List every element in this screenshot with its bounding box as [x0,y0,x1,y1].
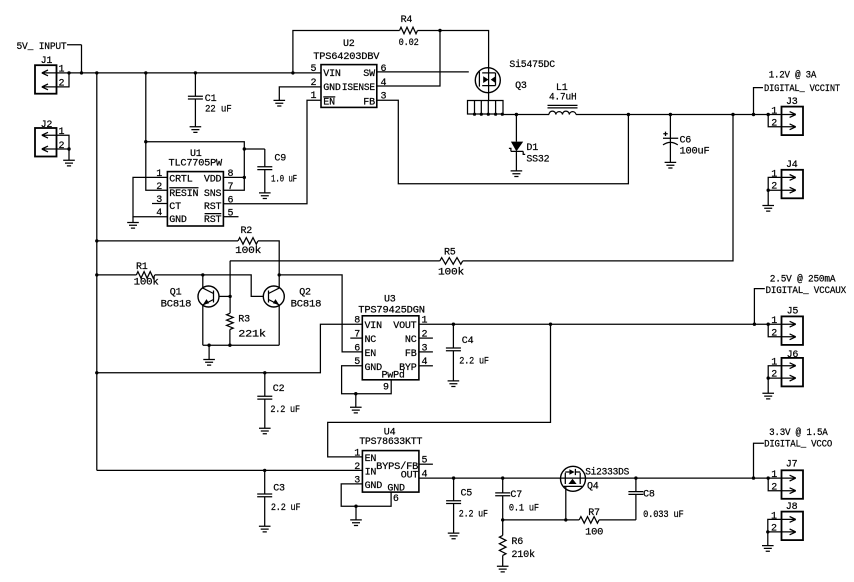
svg-text:4: 4 [381,78,387,89]
junction Q1 base [228,295,231,298]
resistor R7 [579,517,599,524]
svg-text:5: 5 [422,456,428,467]
wire U1 pin6 to U2 EN [223,100,321,204]
junction VCCO label [752,476,755,479]
wire U4 GND route [341,484,391,506]
wire Q2C to U3 EN [279,275,362,352]
svg-text:3.3V @ 1.5A: 3.3V @ 1.5A [769,427,828,439]
junction C3 [263,469,266,472]
svg-text:2: 2 [422,330,428,341]
svg-text:TPS78633KTT: TPS78633KTT [359,437,422,448]
wire R2 line left [97,240,238,242]
pad pin dot 3 [487,113,490,116]
connector J3 [782,107,804,136]
junction VCCINT label [752,113,755,116]
svg-text:C7: C7 [510,490,522,501]
pad pin dot 5 [501,113,504,116]
svg-text:SW: SW [363,69,375,80]
ground C6 [665,162,677,168]
wire VCCINT label stem [754,88,764,115]
junction U4 gnd [354,505,357,508]
wire fb node left [503,519,580,521]
svg-text:210k: 210k [511,549,535,561]
svg-text:1: 1 [59,127,65,138]
svg-text:RST: RST [204,215,222,226]
svg-text:5: 5 [228,208,234,219]
svg-text:1: 1 [422,316,428,327]
junction J4 pin2 [767,189,770,192]
wire U3 BYP stub [419,365,433,367]
svg-text:2: 2 [354,462,360,473]
svg-text:NC: NC [365,335,377,346]
wire J5 pin2 [768,324,781,337]
svg-text:1.2V @ 3A: 1.2V @ 3A [769,70,817,82]
wire U1 gnd stem [132,217,134,223]
wire R2 to Q2 collector [258,241,279,288]
svg-text:1: 1 [771,470,777,481]
resistor R5 [440,258,463,265]
junction C9 branch [243,147,246,150]
svg-text:7: 7 [354,330,360,341]
svg-text:GND: GND [365,481,383,492]
junction VDD pin [243,176,246,179]
svg-text:VDD: VDD [204,175,222,186]
junction rail gnd [207,344,210,347]
wire J3 pin2 [768,115,781,127]
svg-text:2.2 uF: 2.2 uF [459,357,489,368]
junction C7 R6 [501,518,504,521]
svg-text:6: 6 [228,195,234,206]
svg-text:U3: U3 [384,295,396,306]
wire U3 NC2 stub [419,337,433,339]
junction R4 branch [291,71,294,74]
svg-text:C3: C3 [273,484,285,495]
svg-text:D1: D1 [526,143,538,154]
svg-text:1: 1 [771,358,777,369]
ground J8 [762,546,774,552]
junction C4 [452,323,455,326]
U1 RST overline [205,213,222,215]
svg-text:100k: 100k [235,245,261,257]
svg-text:C5: C5 [461,489,473,500]
svg-text:DIGITAL_ VCCAUX: DIGITAL_ VCCAUX [766,286,847,297]
wire J8 pin1 [768,519,782,532]
connector J2 [35,128,57,157]
junction VCCAUX label [753,323,756,326]
ground C4 [448,381,460,387]
wire C9 tick [244,148,264,150]
junction Q2 collector [278,273,281,276]
ground J4 [762,206,774,212]
wire U3 gnd stem [355,394,357,408]
svg-text:2: 2 [771,482,777,493]
junction J1 pin1 [67,71,70,74]
svg-text:R3: R3 [238,315,250,326]
svg-text:RESIN: RESIN [169,189,198,200]
junction J7 pin2 [767,476,770,479]
ground D1 [511,171,523,177]
ground J2 [63,160,75,166]
svg-text:GND: GND [387,483,405,494]
L1 core bars [548,105,578,108]
svg-text:R2: R2 [241,226,253,237]
wire J6 pin1 [768,366,781,378]
wire 2.5V to U4 EN [328,324,551,457]
svg-text:1: 1 [310,91,316,102]
wire 3.3V rail right [585,477,781,479]
wire 5V low rail [97,469,363,471]
Q3 internals [479,68,495,93]
svg-text:9: 9 [383,382,389,393]
svg-text:100k: 100k [134,276,159,288]
svg-text:4.7uH: 4.7uH [549,93,577,104]
svg-text:J6: J6 [787,350,799,361]
svg-text:ISENSE: ISENSE [342,83,375,94]
wire U3 NC7 stub [350,337,362,339]
svg-text:7: 7 [228,182,234,193]
wire R3 bottom [229,330,231,346]
wire fb node right [599,519,636,521]
wire RESIN branch [146,73,168,190]
ground J6 [762,393,774,399]
svg-text:C2: C2 [273,384,285,395]
wire 5V mid rail [97,324,363,373]
wire R5 to 1.2V [463,115,733,261]
wire 2.5V rail [419,323,782,325]
pad pin dot 1 [473,113,476,116]
junction Q4 gate [564,518,567,521]
wire U2 FB net [377,100,629,184]
svg-text:U2: U2 [343,39,355,50]
IC U1 box [167,172,223,226]
wire U4 BYPS stub [419,463,433,465]
svg-text:1: 1 [771,511,777,522]
wire J2 pin1 to pin2 [57,135,70,149]
wire D1 cathode [515,151,517,171]
ground U4 [350,520,362,526]
junction U3 gnd [354,392,357,395]
svg-text:BC818: BC818 [161,300,192,311]
svg-text:3: 3 [156,195,162,206]
junction J2 pin2 [67,147,70,150]
junction R5 top [731,113,734,116]
wire U1 pin5 stub [223,216,238,218]
wire left rail [96,73,98,471]
IC U3 box [362,316,419,380]
ground C3 [259,526,271,532]
transistor Q4 body [561,466,586,491]
junction R3 rail [228,344,231,347]
U1 RESIN overline [169,187,198,189]
ground C5 [448,533,460,539]
svg-text:8: 8 [228,169,234,180]
ground C1 [190,127,202,133]
Q3 drain pad array [468,101,504,115]
svg-text:DIGITAL_ VCCINT: DIGITAL_ VCCINT [764,84,840,95]
svg-text:100k: 100k [438,267,464,279]
wire U2 ISENSE [377,31,440,87]
wire U1 pin8 stub [223,176,244,178]
capacitor C2 [257,373,272,428]
wire Q4 gate [565,486,567,520]
junction U1 branch [144,71,147,74]
capacitor C9 [257,149,272,193]
svg-text:3: 3 [354,475,360,486]
connector J8 [782,512,804,540]
wire R5 line [230,260,440,262]
wire J1 pin1 stub [57,72,70,74]
svg-text:5: 5 [354,357,360,368]
wire R6 bottom [502,555,504,566]
svg-text:4: 4 [156,208,162,219]
wire U1 pin3 stub [152,203,167,205]
wire R4 left [293,31,400,73]
capacitor C3 [257,470,272,526]
U2 EN overline [323,96,335,98]
svg-text:1: 1 [771,106,777,117]
wire VCCO label stem [754,443,764,478]
wire J1 pin2 to pin1 [57,73,70,87]
junction VDD rail [144,140,147,143]
svg-text:3: 3 [422,343,428,354]
junction C1 [194,71,197,74]
junction C6 [669,113,672,116]
svg-text:R4: R4 [401,15,413,26]
Q4 internals [561,469,586,487]
svg-text:C4: C4 [462,336,474,347]
junction J5 pin2 [767,323,770,326]
svg-text:IN: IN [365,467,377,478]
connector J7 [782,470,804,499]
junction R4-ISENSE [438,29,441,32]
svg-text:2.2 uF: 2.2 uF [459,510,488,521]
ground U3 [350,407,362,413]
wire Q3 drain to pad [488,93,490,101]
transistor Q2 body [263,286,284,307]
junction Q1 collector [201,273,204,276]
wire R1 to Q2 base [155,275,263,297]
pad pin dot 2 [480,113,483,116]
wire 5V_INPUT tick [67,45,82,73]
svg-text:R5: R5 [444,247,456,258]
wire Q1 base [219,295,230,297]
ground R6 [497,566,509,572]
resistor R4 [400,27,418,34]
IC U4 box [362,451,419,493]
transistor Q1 body [198,286,219,307]
svg-text:NC: NC [405,335,417,346]
capacitor C1 [188,73,203,127]
wire R4 right [418,31,489,68]
svg-text:0.1 uF: 0.1 uF [509,504,539,515]
wire J8 pin2 [768,532,782,546]
ground Q1 Q2 [203,360,215,366]
svg-text:TLC7705PW: TLC7705PW [169,159,223,170]
svg-text:EN: EN [365,454,377,465]
svg-text:VIN: VIN [365,321,383,332]
svg-text:GND: GND [323,83,341,94]
svg-text:8: 8 [354,316,360,327]
wire U2 GND pin [279,87,321,101]
svg-text:2: 2 [156,182,162,193]
svg-text:SNS: SNS [204,189,222,200]
svg-text:TPS79425DGN: TPS79425DGN [358,306,425,317]
svg-text:C6: C6 [680,136,692,147]
svg-text:PwPd: PwPd [382,370,405,382]
connector J4 [782,170,804,199]
svg-text:J2: J2 [41,120,53,131]
capacitor C8 [628,478,643,520]
svg-text:1: 1 [156,169,162,180]
svg-text:5: 5 [310,64,316,75]
wire J4 pin2 [768,190,781,205]
svg-text:2: 2 [771,370,777,381]
resistor R3 [227,313,234,329]
svg-text:1: 1 [354,448,360,459]
wire J7 pin2 [768,478,781,491]
svg-text:R6: R6 [511,537,523,548]
svg-text:0.02: 0.02 [399,38,419,49]
wire U3 GND route [342,366,392,394]
svg-text:R7: R7 [588,508,600,519]
wire J2 pin2 stub [57,149,70,160]
junction J3 pin2 [767,113,770,116]
resistor R2 [238,238,258,245]
svg-text:6: 6 [381,64,387,75]
svg-text:OUT: OUT [401,470,419,481]
svg-text:C8: C8 [643,489,655,500]
svg-text:FB: FB [363,98,375,109]
resistor R6 [499,535,506,555]
junction J6 pin2 [767,376,770,379]
junction U4 EN branch [549,323,552,326]
svg-text:2.5V @ 250mA: 2.5V @ 250mA [770,273,836,285]
svg-text:Q4: Q4 [587,482,599,493]
svg-text:100: 100 [585,527,603,538]
wire Q1 collector [202,275,204,288]
svg-text:CT: CT [169,202,181,213]
wire Q1 base node to R3 [229,261,231,313]
wire VDD rail [146,142,245,191]
junction mid rail [95,371,98,374]
junction C5 [452,476,455,479]
Q2 internals [269,288,280,305]
svg-text:4: 4 [422,357,428,368]
svg-text:2: 2 [59,141,65,152]
Q1 internals [203,288,214,305]
capacitor C7 [495,478,510,520]
svg-text:RST: RST [204,202,222,213]
junction FB [627,113,630,116]
svg-text:SS32: SS32 [526,155,549,166]
svg-text:GND: GND [365,363,383,374]
wire emitter rail [203,344,279,346]
svg-text:4: 4 [422,469,428,480]
junction 5V label [80,71,83,74]
svg-text:1: 1 [59,65,65,76]
wire R6 top [502,520,504,536]
svg-text:J7: J7 [786,460,798,471]
wire 1.2V rail [576,114,782,116]
wire 3.3V rail left [419,477,561,479]
svg-text:EN: EN [323,98,335,109]
wire U3 FB stub [419,351,433,353]
wire J4 pin1 [768,177,781,190]
svg-text:22 uF: 22 uF [205,105,232,116]
svg-text:2.2 uF: 2.2 uF [271,503,301,514]
svg-text:100uF: 100uF [680,147,710,158]
wire Q1 emitter [202,305,204,345]
junction C2 [263,371,266,374]
svg-text:DIGITAL_ VCCO: DIGITAL_ VCCO [764,440,832,451]
svg-text:C1: C1 [205,94,217,105]
ground U1 [127,223,139,229]
ground U2 [274,100,286,106]
capacitor C5 [446,478,461,533]
wire U4 gnd stem [355,506,357,520]
IC U2 box [321,65,377,108]
svg-text:2: 2 [771,182,777,193]
junction C7 [501,476,504,479]
svg-text:FB: FB [405,349,417,360]
svg-text:221k: 221k [238,329,266,341]
ground C2 [259,428,271,434]
ground C9 [259,193,271,199]
junction C8 [634,476,637,479]
svg-text:5V_ INPUT: 5V_ INPUT [17,42,67,53]
connector J1 [35,65,57,94]
svg-text:VIN: VIN [323,69,341,80]
svg-text:1: 1 [771,316,777,327]
wire rail gnd stem [208,345,210,359]
svg-text:6: 6 [354,343,360,354]
connector J6 [782,358,804,387]
svg-text:EN: EN [365,349,377,360]
svg-text:Q1: Q1 [170,287,182,298]
svg-text:GND: GND [169,215,187,226]
svg-text:6: 6 [393,494,399,505]
svg-text:R1: R1 [136,262,148,273]
svg-text:TPS64203DBV: TPS64203DBV [313,52,379,63]
svg-text:Si5475DC: Si5475DC [509,59,555,71]
svg-text:Q3: Q3 [515,81,527,92]
junction R2 rail [95,239,98,242]
svg-text:2.2 uF: 2.2 uF [270,405,300,416]
svg-text:1: 1 [771,169,777,180]
svg-text:0.033 uF: 0.033 uF [643,510,684,521]
wire switch node [503,114,549,116]
wire VCCAUX label stem [754,289,764,325]
transistor Q3 body [475,68,500,93]
svg-text:BC818: BC818 [291,300,322,311]
wire 5V bus [69,72,321,74]
wire U1 pin1 CRTL [133,177,167,216]
svg-text:2: 2 [771,524,777,535]
svg-text:Q2: Q2 [299,287,311,298]
resistor R1 [136,272,154,279]
wire D1 anode [515,115,517,142]
capacitor C6 [663,115,678,163]
svg-text:2: 2 [771,328,777,339]
svg-text:2: 2 [59,78,65,89]
wire J6 pin2 [768,378,781,393]
junction J8 pin2 [766,530,769,533]
svg-text:1.0 uF: 1.0 uF [271,174,297,185]
svg-text:CRTL: CRTL [169,175,192,186]
svg-text:VOUT: VOUT [393,321,416,332]
inductor L1 [549,111,576,114]
pad pin dot 4 [494,113,497,116]
